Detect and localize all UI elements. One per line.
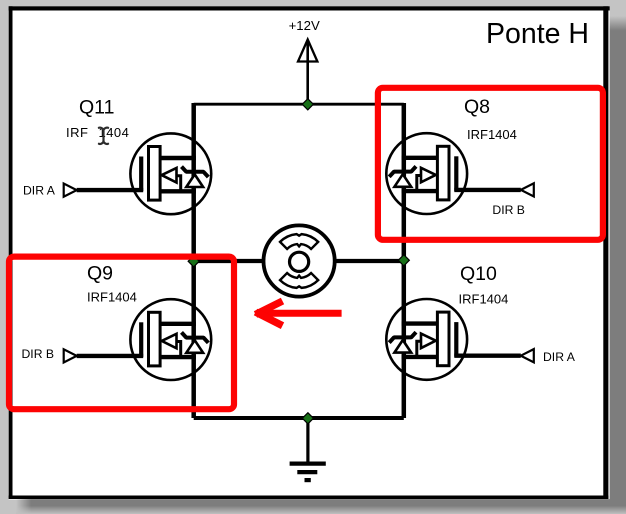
svg-text:Ponte H: Ponte H	[486, 18, 589, 50]
svg-text:DIR A: DIR A	[543, 350, 576, 364]
red highlight box around Q9	[9, 257, 234, 410]
junction node motor right	[397, 254, 410, 267]
svg-text:Q10: Q10	[460, 263, 497, 285]
junction node ground	[302, 412, 315, 425]
svg-text:DIR B: DIR B	[492, 203, 525, 217]
svg-text:IRF1404: IRF1404	[87, 290, 137, 305]
transistor Q11	[64, 133, 212, 214]
wire: motor right	[332, 259, 404, 263]
svg-text:DIR B: DIR B	[22, 347, 55, 361]
power +12V symbol	[289, 18, 320, 104]
wire: motor left	[194, 259, 266, 263]
junction node motor left	[187, 255, 200, 268]
svg-text:Q11: Q11	[79, 96, 114, 118]
transistor Q10 (mirrored)	[386, 299, 534, 380]
ground	[290, 418, 326, 480]
svg-text:+12V: +12V	[289, 18, 320, 33]
wire: right rail	[402, 103, 407, 418]
svg-text:IRF1404: IRF1404	[467, 127, 517, 142]
junction node top	[301, 98, 314, 111]
transistor Q9	[64, 299, 212, 380]
drop shadow bottom	[16, 499, 626, 514]
wire: left rail	[191, 103, 196, 418]
svg-text:Q8: Q8	[464, 96, 490, 118]
text cursor (I-beam) over IRF1404 of Q11	[99, 128, 108, 144]
svg-text:IRF1404: IRF1404	[459, 292, 509, 307]
drop shadow right	[610, 16, 626, 500]
wire: bottom bus	[194, 416, 404, 420]
motor M1	[264, 225, 335, 296]
red arrow	[256, 301, 342, 326]
page background (white sheet with black frame)	[9, 6, 610, 200]
svg-text:Q9: Q9	[87, 263, 113, 285]
svg-text:DIR A: DIR A	[23, 184, 56, 198]
red highlight box around Q8	[378, 88, 603, 240]
svg-text:IRF1404: IRF1404	[66, 125, 129, 140]
wire: top bus	[194, 103, 404, 106]
transistor Q8 (mirrored)	[386, 133, 534, 214]
